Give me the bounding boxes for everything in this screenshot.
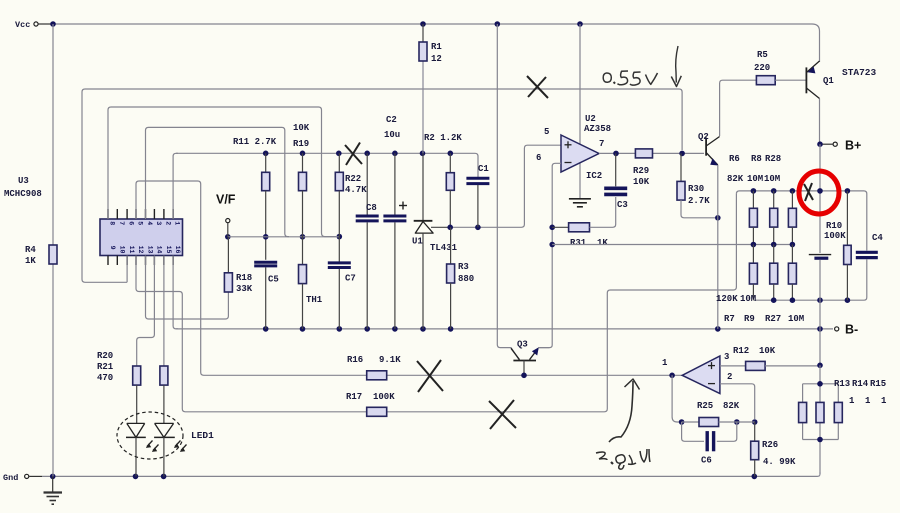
wire Q1 collector to B+ — [819, 99, 821, 145]
svg-text:R13: R13 — [834, 379, 850, 389]
wire Vcc rail — [53, 24, 820, 62]
annotation X over C2 area — [345, 143, 362, 166]
svg-text:220: 220 — [754, 63, 770, 73]
svg-text:4. 99K: 4. 99K — [763, 457, 796, 467]
svg-text:10M: 10M — [764, 174, 780, 184]
junction U2 inv node dots — [549, 225, 555, 248]
svg-text:R6: R6 — [729, 154, 740, 164]
wire pin12 route (to R17 line) — [136, 256, 188, 412]
op-amp U2 AZ358 (IC2 pin7) — [536, 114, 611, 181]
svg-text:C7: C7 — [345, 274, 356, 284]
svg-text:TL431: TL431 — [430, 243, 458, 253]
capacitor C2 10u — [383, 115, 407, 329]
label R20 R21 470 — [97, 351, 114, 383]
svg-text:12: 12 — [137, 246, 144, 254]
capacitor C4 — [856, 233, 884, 258]
svg-text:Q2: Q2 — [698, 132, 709, 142]
svg-text:2: 2 — [165, 221, 172, 225]
junction main bus dots — [263, 151, 453, 157]
svg-text:MCHC908: MCHC908 — [4, 189, 42, 199]
svg-text:33K: 33K — [236, 284, 253, 294]
svg-text:10M: 10M — [747, 174, 763, 184]
wire TL431 ref line — [450, 145, 561, 227]
resistor R13 1 — [799, 402, 807, 422]
svg-text:6: 6 — [128, 221, 135, 225]
svg-text:R9: R9 — [744, 314, 755, 324]
svg-text:10u: 10u — [384, 130, 400, 140]
svg-text:R22: R22 — [345, 174, 361, 184]
resistor R19 10K — [293, 123, 310, 265]
capacitor C3 — [604, 153, 628, 210]
resistor R26 4.99K — [751, 422, 796, 476]
resistor R15 1 — [834, 402, 842, 422]
svg-text:R25: R25 — [697, 401, 713, 411]
wire B- column segment — [819, 300, 821, 329]
svg-text:7: 7 — [599, 139, 604, 149]
svg-text:11: 11 — [128, 246, 135, 254]
annotation handwritten 0.55V — [603, 71, 657, 85]
resistor R16 9.1K — [347, 355, 401, 380]
svg-text:10: 10 — [118, 246, 125, 254]
svg-text:8: 8 — [109, 221, 116, 225]
LED D2 (right) — [154, 423, 175, 476]
capacitor C5 — [254, 262, 279, 329]
svg-text:120K: 120K — [716, 294, 738, 304]
resistor R1 12 — [419, 42, 442, 64]
wire network left riser — [735, 194, 737, 287]
svg-text:R11 2.7K: R11 2.7K — [233, 137, 277, 147]
svg-text:10K: 10K — [293, 123, 310, 133]
diode U1 TL431 — [412, 153, 458, 329]
LED1 dashed ellipse — [117, 412, 183, 459]
junction U2 output dots — [613, 151, 685, 157]
svg-text:16: 16 — [174, 246, 181, 254]
svg-text:1: 1 — [849, 396, 855, 406]
pin stubs U3 bottom — [108, 256, 173, 266]
svg-text:12: 12 — [431, 54, 442, 64]
resistor R31 1K — [552, 197, 616, 248]
wire U2 inverting input — [538, 163, 561, 347]
svg-text:4.7K: 4.7K — [345, 185, 367, 195]
annotation X over R17 — [489, 400, 516, 429]
wire Q3 collector to Vcc — [497, 24, 519, 360]
pin numbers U3 top row 8..1 — [109, 221, 181, 225]
svg-text:9.1K: 9.1K — [379, 355, 401, 365]
wire Gnd rail right corner — [818, 472, 821, 476]
wire pin11 to opamp-output loop (wire A) — [82, 89, 682, 282]
wire feedback from output — [672, 375, 679, 422]
svg-text:C2: C2 — [386, 115, 397, 125]
svg-text:R29: R29 — [633, 166, 649, 176]
resistor R27 10M — [788, 245, 796, 301]
svg-text:14: 14 — [155, 246, 162, 254]
svg-text:3: 3 — [155, 221, 162, 225]
capacitor (sense cap on B+ column) — [809, 255, 831, 301]
svg-text:R12: R12 — [733, 346, 749, 356]
resistor R6 82K — [749, 191, 757, 245]
node B- terminal — [835, 323, 859, 337]
svg-text:R21: R21 — [97, 362, 114, 372]
junction V/F line dots — [225, 234, 342, 240]
svg-text:2: 2 — [727, 372, 732, 382]
wire pin4 bus (to R19 bottom node) — [146, 127, 290, 236]
svg-text:3: 3 — [724, 352, 729, 362]
annotation red circle — [799, 171, 839, 214]
wire pin8 bus (to C7/R22 node) — [108, 107, 336, 237]
wire R16/output line — [206, 374, 682, 376]
svg-text:1: 1 — [662, 358, 668, 368]
label R13 R14 R15 values — [834, 379, 887, 406]
svg-text:R4: R4 — [25, 245, 36, 255]
svg-text:U2: U2 — [585, 114, 596, 124]
wire IC2 pin2 input — [720, 384, 755, 419]
resistor R25 82K — [682, 401, 755, 427]
wire Gnd rail — [42, 475, 818, 477]
svg-text:1: 1 — [865, 396, 871, 406]
op-amp U3 MCHC908 IC body — [100, 219, 183, 256]
svg-text:R26: R26 — [762, 440, 778, 450]
svg-text:Q1: Q1 — [823, 76, 834, 86]
svg-text:10K: 10K — [633, 177, 650, 187]
wire Q2 collector to R5 — [720, 80, 757, 136]
svg-text:Gnd: Gnd — [3, 473, 18, 483]
junction output line dots — [521, 373, 675, 379]
junction TL431 ref dots — [447, 225, 480, 231]
svg-text:C3: C3 — [617, 200, 628, 210]
node B+ terminal — [817, 139, 861, 153]
resistor R5 220 — [754, 50, 806, 85]
junction analog rail dots — [263, 326, 823, 332]
svg-text:100K: 100K — [824, 231, 846, 241]
wire R1 column — [422, 24, 424, 153]
svg-text:R8: R8 — [751, 154, 762, 164]
svg-text:1K: 1K — [597, 238, 608, 248]
svg-text:1: 1 — [881, 396, 887, 406]
transistor Q2 — [698, 132, 720, 166]
resistor R28 10M — [788, 191, 796, 245]
svg-text:1: 1 — [174, 221, 181, 225]
label network values top — [727, 154, 781, 184]
svg-text:10M: 10M — [740, 294, 756, 304]
LED D1 (left) — [126, 423, 146, 476]
svg-text:R1: R1 — [431, 42, 442, 52]
capacitor C8 — [356, 153, 379, 329]
junction R13-15 dots — [817, 381, 823, 442]
wire U2 output node — [599, 152, 704, 154]
wire pin5 bus (to R16 line) — [136, 181, 206, 375]
svg-text:TH1: TH1 — [306, 295, 323, 305]
ground symbol (left, below Gnd) — [44, 476, 63, 504]
svg-text:R2 1.2K: R2 1.2K — [424, 133, 462, 143]
label LED1 — [191, 430, 214, 441]
svg-text:R10: R10 — [826, 221, 842, 231]
resistor R29 10K — [633, 149, 653, 187]
svg-text:STA723: STA723 — [842, 67, 877, 78]
LED arrows right — [174, 441, 187, 452]
wire analog bottom rail — [176, 328, 833, 330]
junction R25 line dots — [679, 419, 758, 425]
resistor R2 1.2K — [424, 133, 462, 227]
svg-text:R19: R19 — [293, 139, 309, 149]
transistor Q3 — [511, 340, 539, 376]
svg-text:U3: U3 — [18, 176, 29, 186]
svg-text:C8: C8 — [366, 203, 377, 213]
annotation X upper middle — [527, 76, 548, 98]
capacitor C1 — [466, 164, 489, 227]
svg-text:15: 15 — [165, 246, 172, 254]
svg-text:13: 13 — [147, 246, 154, 254]
svg-text:Q3: Q3 — [517, 340, 528, 350]
svg-text:C4: C4 — [872, 233, 883, 243]
wire pin14 to R20 — [137, 256, 155, 367]
svg-text:C5: C5 — [268, 275, 279, 285]
wire R4 column — [52, 24, 54, 476]
IC U3 label — [4, 176, 42, 199]
svg-text:U1: U1 — [412, 237, 423, 247]
junction network top dots — [751, 188, 851, 194]
wire V/F line — [228, 236, 339, 238]
wire U2 power column — [579, 24, 581, 199]
svg-text:R15: R15 — [870, 379, 886, 389]
svg-text:C1: C1 — [478, 164, 489, 174]
svg-text:100K: 100K — [373, 392, 395, 402]
wire B+ column down — [819, 144, 821, 253]
wire pin15 to R21 — [163, 256, 165, 367]
svg-text:B-: B- — [845, 323, 858, 337]
resistor R21 470 — [160, 366, 168, 423]
resistor R18 33K — [224, 237, 252, 294]
svg-text:R18: R18 — [236, 273, 252, 283]
wire pin13 to R18 bottom — [146, 256, 229, 320]
svg-text:Vcc: Vcc — [15, 20, 30, 30]
svg-text:R3: R3 — [458, 262, 469, 272]
svg-text:R27: R27 — [765, 314, 781, 324]
svg-text:880: 880 — [458, 274, 474, 284]
op-amp IC2 pin1 (left-pointing) — [662, 352, 732, 394]
resistor R14 1 — [816, 402, 824, 422]
resistor R10 100K — [824, 191, 851, 300]
svg-text:5: 5 — [544, 127, 549, 137]
svg-text:10M: 10M — [788, 314, 804, 324]
svg-text:AZ358: AZ358 — [584, 124, 611, 134]
svg-text:B+: B+ — [845, 139, 861, 153]
svg-text:R30: R30 — [688, 184, 704, 194]
transistor Q1 STA723 — [806, 61, 876, 99]
wire mid feedback line — [552, 244, 792, 246]
junction Vcc dots — [50, 21, 583, 27]
svg-text:R28: R28 — [765, 154, 781, 164]
svg-text:R16: R16 — [347, 355, 363, 365]
svg-text:9: 9 — [109, 246, 116, 250]
svg-text:R5: R5 — [757, 50, 768, 60]
resistor R12 10K — [720, 346, 818, 370]
resistor R9 10M — [770, 245, 778, 301]
wire Q2 emitter column — [717, 165, 719, 329]
wire B- to R12 column — [817, 329, 823, 368]
junction Q2 emitter dot — [715, 215, 721, 221]
svg-text:C6: C6 — [701, 456, 712, 466]
capacitor C7 — [328, 237, 356, 329]
svg-text:IC2: IC2 — [586, 171, 602, 181]
ground symbol (below U2) — [569, 199, 591, 207]
annotation small X in red circle — [804, 183, 813, 201]
capacitor C6 — [682, 422, 737, 466]
wire main bus (pin1 to C1) — [176, 153, 478, 177]
wire Q3 emitter link — [538, 347, 549, 349]
label network values bottom — [716, 294, 804, 324]
junction network middle dots — [751, 242, 796, 248]
svg-text:4: 4 — [146, 221, 153, 225]
svg-text:R17: R17 — [346, 392, 362, 402]
thermistor TH1 — [299, 265, 323, 329]
svg-text:10K: 10K — [759, 346, 776, 356]
wire network bottom line — [753, 260, 866, 301]
resistor R30 2.7K — [677, 153, 715, 217]
node V/F terminal — [216, 193, 236, 237]
annotation curved arrow lower right — [609, 379, 640, 442]
resistor R3 880 — [447, 227, 475, 329]
annotation handwritten 2.82V — [596, 449, 650, 469]
junction network bottom dots — [771, 297, 850, 303]
wire R13R14R15 bracket — [803, 365, 839, 474]
pin stubs U3 top — [108, 209, 173, 219]
annotation down arrow at 0.55V — [671, 46, 681, 87]
svg-text:82K: 82K — [727, 174, 744, 184]
wire R17 line — [188, 287, 736, 412]
wire network top line — [736, 191, 866, 251]
pin numbers U3 bottom row 9..16 — [109, 246, 181, 254]
svg-text:6: 6 — [536, 153, 541, 163]
svg-text:R20: R20 — [97, 351, 113, 361]
svg-text:R14: R14 — [852, 379, 869, 389]
wire pin1 to main bus — [173, 153, 178, 219]
resistor R7 120K — [749, 245, 757, 301]
LED arrows left — [146, 441, 159, 452]
svg-text:82K: 82K — [723, 401, 740, 411]
svg-text:1K: 1K — [25, 256, 36, 266]
node Vcc terminal — [15, 20, 51, 30]
svg-text:LED1: LED1 — [191, 430, 214, 441]
wire pin16 to analog rail — [173, 256, 178, 329]
resistor R20 470 — [133, 366, 141, 423]
svg-text:5: 5 — [137, 221, 144, 225]
resistor R17 100K — [346, 392, 395, 416]
resistor R11 2.7K — [233, 137, 277, 260]
junction Gnd rail dots — [50, 474, 757, 480]
svg-text:7: 7 — [118, 221, 125, 225]
resistor R8 10M — [770, 191, 778, 245]
svg-text:V/F: V/F — [216, 193, 236, 207]
node Gnd terminal — [3, 473, 42, 483]
svg-text:2.7K: 2.7K — [688, 196, 710, 206]
svg-text:470: 470 — [97, 373, 113, 383]
resistor R22 4.7K — [335, 153, 367, 236]
svg-text:R31: R31 — [570, 238, 587, 248]
resistor R4 1K — [25, 245, 57, 266]
svg-text:R7: R7 — [724, 314, 735, 324]
annotation X over R16 — [417, 360, 443, 392]
